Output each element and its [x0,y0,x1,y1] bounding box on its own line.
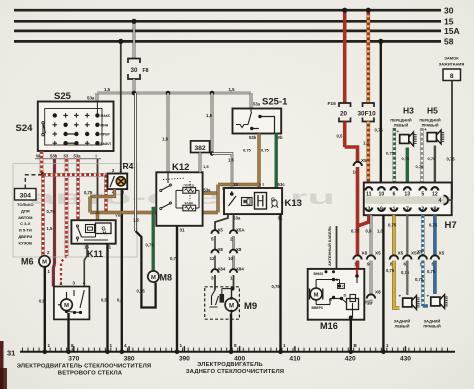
svg-text:ВНИЗ: ВНИЗ [314,272,323,276]
connector X5A pin 6 [403,255,411,259]
svg-text:0,75: 0,75 [170,256,179,261]
svg-text:Н3: Н3 [403,106,414,116]
motor M6 [39,256,50,267]
svg-text:S25-1: S25-1 [262,97,288,108]
svg-text:ЗАДНЕГО СТЕКЛООЧИСТИТЕЛЯ: ЗАДНЕГО СТЕКЛООЧИСТИТЕЛЯ [186,369,284,375]
svg-text:+: + [424,127,427,132]
svg-text:0,75: 0,75 [243,148,252,153]
ground rail 31 [20,351,455,353]
svg-text:X8: X8 [375,290,381,295]
svg-text:53b: 53b [50,154,58,159]
wire K13-31 to ground [279,214,281,352]
yellow wire H7-1 to X5-8 [392,215,396,256]
box 382 [191,141,210,153]
svg-text:1,5: 1,5 [229,87,236,92]
svg-text:ПЕРЕД: ПЕРЕД [184,183,195,187]
M16 motor [310,289,323,300]
K11 switch contact [76,225,78,227]
fuse F10 [363,103,375,107]
svg-text:X8: X8 [218,247,224,252]
connector X8 pin 12 [211,250,218,254]
scan edge artifact bottom-left [0,341,4,389]
connector X5A pin 2 [230,230,237,234]
relay K12 box [156,172,202,226]
svg-text:370: 370 [68,355,79,362]
M9 park switch [212,290,216,305]
connector X84 pin 3 [211,269,218,273]
M7 park switch [73,290,75,296]
node brown T [257,183,261,187]
svg-text:D: D [344,293,347,298]
yellow wire X5-8 to rear-left speaker [394,261,400,309]
svg-text:М9: М9 [244,301,257,312]
svg-text:ВЕТРОВОГО СТЕКЛА: ВЕТРОВОГО СТЕКЛА [58,370,123,376]
svg-text:0,5: 0,5 [337,134,343,139]
connector X5 pin 1 [419,255,427,259]
bus line 15A [14,30,441,33]
wire 53a to K13 via 382 [211,93,214,154]
svg-text:1,0: 1,0 [363,141,369,146]
svg-text:53: 53 [64,154,69,159]
svg-text:K11: K11 [87,249,103,259]
svg-text:1: 1 [110,343,113,348]
svg-text:53a: 53a [253,102,261,107]
svg-text:ПЕРЕДНИЙ: ПЕРЕДНИЙ [390,119,412,123]
uncolored wire from F8 down [134,93,137,231]
red wire X5-18 down [356,167,360,256]
svg-text:X84: X84 [236,267,244,272]
gray wire X8-13 to M16 [364,300,371,303]
svg-text:390: 390 [179,355,190,362]
svg-text:30: 30 [444,6,454,16]
loop wire to M8 lower [136,231,156,308]
wire 53a to K12 [167,93,170,172]
svg-text:1: 1 [48,343,51,348]
red wire 30 to F15 [343,10,347,103]
wire 58 to R4 [120,41,122,173]
svg-text:X5: X5 [218,228,224,233]
svg-text:АВТОМ: АВТОМ [18,215,33,220]
svg-text:15: 15 [233,182,238,187]
node [231,287,235,291]
svg-text:0,75: 0,75 [388,223,397,228]
rear wiper motor M9 dashed box [205,287,240,319]
svg-text:30F10: 30F10 [358,111,377,118]
black wire H7-9b to ground [382,215,384,352]
M16 internal wiring [315,280,317,289]
connector X5 pin 8 [390,255,398,259]
svg-text:МИН: МИН [101,123,109,127]
svg-text:3: 3 [211,276,214,281]
red wire F15 to X5-18 [343,122,347,148]
motor M8 [148,271,159,282]
wire 53a line to S25-1 [250,93,253,109]
svg-text:0,75: 0,75 [415,277,424,282]
svg-text:0,75: 0,75 [146,243,155,248]
svg-text:ПРАВЫЙ: ПРАВЫЙ [423,324,440,329]
svg-text:1: 1 [283,343,286,348]
svg-text:+: + [427,294,430,299]
svg-text:1: 1 [230,276,233,281]
svg-text:+: + [397,129,400,134]
svg-text:Н7: Н7 [445,220,457,231]
fuse F8 brackets [128,59,140,64]
red wire X8-11 to M16 [356,261,360,269]
svg-text:КУЗОВ: КУЗОВ [19,240,33,245]
svg-text:С 3-Х: С 3-Х [20,221,31,226]
gray wire X5A-6 to rear-left speaker [406,261,408,296]
striped wire horizontal [43,173,106,177]
wire K12-31 to ground [176,226,178,352]
svg-text:М: М [42,260,47,266]
svg-text:М8: М8 [160,273,173,283]
brown wire S25-1 to K13 [257,134,260,189]
K12 contact lower [160,207,162,209]
green wire K12 to M8 [153,209,156,271]
wire R4 to ground [121,189,123,352]
svg-text:8: 8 [234,343,237,348]
blue wire H7-8 to X5-6 [433,215,437,256]
M16 solenoid [347,299,359,310]
blue striped wire H7-2 to X5-1 [421,215,425,256]
svg-text:31: 31 [7,349,15,358]
svg-text:382: 382 [194,145,206,152]
svg-text:ПЕРЕДНИЙ: ПЕРЕДНИЙ [419,119,441,123]
svg-text:1: 1 [180,343,183,348]
K12 linkage dots [163,178,184,179]
K11 coil box G [96,223,112,234]
svg-text:В: В [329,297,332,302]
M7 motor [61,299,73,311]
svg-text:1: 1 [386,343,389,348]
gray wire H7-7 to X5A-6 [406,215,408,256]
ground nodes [43,350,48,355]
M16 ground node [349,316,353,320]
svg-text:9: 9 [367,262,370,267]
svg-text:31: 31 [180,228,186,233]
wire 53a from S25 [96,93,99,101]
wiper motor M7 box [54,287,90,320]
brown drop to K11 [96,213,99,221]
svg-text:ЛЕВЫЙ: ЛЕВЫЙ [395,324,410,329]
svg-text:ВЫКЛ: ВЫКЛ [101,142,112,146]
svg-text:0,5: 0,5 [366,229,372,234]
53a horizontal line [97,92,251,95]
resistor-lamp R4 box [108,174,128,190]
svg-text:6: 6 [392,191,395,197]
svg-text:8: 8 [450,73,454,80]
svg-text:X5: X5 [417,249,423,254]
switch S24 contact [42,124,44,135]
svg-text:X8: X8 [362,251,368,256]
wires into M9 [214,275,216,290]
svg-text:X5: X5 [375,251,381,256]
svg-text:X5A: X5A [236,228,245,233]
svg-text:304: 304 [20,193,32,200]
wire dark H5 to H7-12 [434,146,436,183]
svg-text:410: 410 [289,355,300,362]
K13 contact [230,192,234,196]
svg-text:ЛЕВЫЙ: ЛЕВЫЙ [394,123,409,127]
svg-text:53e: 53e [204,188,212,193]
svg-text:20: 20 [340,111,348,118]
svg-text:S24: S24 [16,123,34,134]
svg-text:0,75: 0,75 [416,164,425,169]
svg-text:30: 30 [131,67,138,74]
col5 feed line [96,102,98,116]
K13 small contact box [242,198,253,206]
svg-text:М6: М6 [21,257,34,267]
svg-text:S25: S25 [54,91,72,102]
option boundary box [13,164,137,258]
svg-text:420: 420 [345,355,356,362]
wire M16 to ground [350,318,352,352]
node on bus 15 [131,19,136,24]
R4 switch stroke [110,176,115,187]
connector X5 pin 5 [211,230,218,234]
svg-text:0,75: 0,75 [261,148,270,153]
wire 53a striped to K11 [76,159,80,220]
S25-1 contacts [250,127,253,130]
bus line 15 [14,20,441,23]
svg-text:K13: K13 [285,198,302,209]
relay K13 box [224,188,282,214]
H7 pin 4 side connector [444,196,449,205]
connector X8 pin 10 [230,250,237,254]
brown vertical [216,185,219,213]
link to K13-15 [212,154,232,189]
wire M6 to ground [44,267,46,352]
svg-text:1,5: 1,5 [104,87,111,92]
label box 304 [15,189,37,201]
svg-text:0,5: 0,5 [117,298,123,303]
svg-text:М: М [229,303,234,309]
svg-text:1,5: 1,5 [206,113,213,118]
fuse F15 [339,103,351,107]
svg-text:X5: X5 [361,158,367,163]
svg-text:12: 12 [432,191,438,197]
svg-text:0,75: 0,75 [137,289,146,294]
svg-text:X5: X5 [439,251,445,256]
svg-text:ТОЛЬКО: ТОЛЬКО [17,202,34,207]
row links [66,133,77,135]
switch S25-1 box [233,109,282,134]
M9 resistor [220,294,225,303]
svg-text:X8: X8 [236,247,242,252]
svg-text:X84: X84 [218,267,226,272]
ground rail ticks [22,348,24,352]
K12 internal wires [167,172,169,183]
svg-text:ЭЛЕКТРОДВИГАТЕЛЬ СТЕКЛООЧИСТИТ: ЭЛЕКТРОДВИГАТЕЛЬ СТЕКЛООЧИСТИТЕЛЯ [17,363,152,369]
svg-text:6: 6 [404,262,407,267]
brown horizontal to K11 [90,211,218,214]
svg-text:1,5: 1,5 [162,137,169,142]
wire W striped [40,151,44,175]
blue striped wire X5-1 to rear-right speaker [421,261,425,307]
connector X5 pin 9 [367,255,375,259]
svg-text:М: М [64,303,69,309]
S25-1 wavy contact [236,125,248,128]
relay K11 box [71,220,115,244]
svg-text:4: 4 [124,343,127,348]
black wire 58 to H7-10 [380,41,382,182]
node 53a-F8 [132,91,137,96]
svg-text:Н5: Н5 [427,106,438,116]
svg-text:5: 5 [211,237,214,242]
S25 contact grid [53,113,57,117]
svg-text:МАКС: МАКС [101,114,111,118]
svg-text:0,75: 0,75 [429,223,438,228]
bus line 58 [14,40,441,43]
svg-text:ЗАДН: ЗАДН [185,201,193,205]
gray wire H7-9 to X5-9 [370,215,373,256]
svg-text:АНТЕННЫЙ КАБЕЛЬ: АНТЕННЫЙ КАБЕЛЬ [327,226,332,266]
svg-text:ЗАЖИГАНИЯ: ЗАЖИГАНИЯ [439,62,465,67]
H7 top row sockets [365,187,372,190]
wire ignition to H7-4 [451,81,453,200]
svg-text:ДВЕРИ: ДВЕРИ [18,234,32,239]
svg-text:F15: F15 [328,101,337,107]
wire striped gray to H5 [420,128,424,183]
svg-text:X5: X5 [398,251,404,256]
svg-text:53b: 53b [249,135,257,140]
svg-text:0,75: 0,75 [427,269,436,274]
blue wire X5-6 to rear-right speaker [433,261,437,295]
svg-text:380: 380 [124,355,135,362]
wire 53 striped [65,159,69,256]
gray wire X5-9 to X8-13 [370,261,373,296]
wire M7 to ground [67,313,69,352]
brown wire from K12 53e [203,191,218,194]
svg-text:13: 13 [404,191,410,197]
svg-text:1,5: 1,5 [47,226,53,231]
svg-text:53c: 53c [278,182,286,187]
red wire H7-3 to X8-11 [358,215,369,226]
node [210,151,214,155]
M16 red input node [356,269,358,276]
striped wire to M6 [41,175,45,256]
wire K11-15 to wiper pin4 [84,244,87,287]
wire K13-53a to X5 [215,214,228,231]
striped wire F10 to H7-11 [366,122,370,183]
svg-text:5: 5 [421,191,424,197]
antenna motor M16 box [308,269,365,320]
green wire S25-1 to K13 [275,134,278,189]
K11 internal link [82,236,96,238]
svg-text:1,5: 1,5 [203,164,209,169]
svg-text:R4: R4 [123,161,134,171]
K12 contact upper [160,189,162,191]
svg-text:4: 4 [439,198,442,204]
node on bus 58 [118,39,123,44]
motor M9 [225,298,238,311]
ignition lock box 8 [443,69,461,81]
svg-text:ЭЛЕКТРОДВИГАТЕЛЬ: ЭЛЕКТРОДВИГАТЕЛЬ [197,362,263,368]
svg-text:1,5: 1,5 [228,158,234,163]
svg-text:F8: F8 [143,68,149,74]
node on bus 30 [366,8,371,13]
bus line 30 [14,9,441,12]
svg-text:1,5: 1,5 [133,218,139,223]
wire green H3 to H7-13 [406,148,409,183]
svg-text:58: 58 [444,37,454,47]
wires to X84 [214,256,216,271]
K11 small contact box [86,225,95,233]
striped wire down past R4 [104,175,108,212]
wire 15 to fuse F8 [133,21,136,58]
svg-text:430: 430 [400,355,411,362]
svg-text:0,75: 0,75 [351,229,360,234]
node 53a-K12 [166,91,171,96]
svg-text:53a: 53a [87,96,95,101]
svg-text:10: 10 [379,191,385,197]
connector X84 pin 1 [230,269,237,273]
wire fuse F8 to 53a line [133,79,136,93]
svg-text:0,75: 0,75 [84,190,93,195]
svg-text:K12: K12 [172,162,189,173]
svg-text:0,75: 0,75 [428,156,437,161]
node on bus 30 [342,8,347,13]
connector H7 box [364,183,452,216]
svg-text:М: М [151,275,156,281]
antenna cable [336,226,338,269]
svg-text:ЗАМОК: ЗАМОК [444,56,459,61]
wire I to K11 [97,159,99,220]
svg-text:ПРЕР: ПРЕР [101,133,111,137]
svg-text:0,75: 0,75 [447,157,456,162]
svg-text:0,75: 0,75 [375,128,384,133]
svg-text:И 5-ТИ: И 5-ТИ [19,228,32,233]
svg-text:0,75: 0,75 [272,284,281,289]
svg-text:+: + [399,294,402,299]
switch S25 box [38,102,114,152]
svg-text:М: М [314,292,319,298]
svg-text:15: 15 [444,17,454,27]
svg-text:0,75: 0,75 [47,209,56,214]
R4 pin4 link to brown YR wire [90,189,115,196]
svg-text:53a: 53a [74,154,82,159]
svg-text:YR: YR [115,213,121,218]
wire M9 to ground [230,314,232,352]
svg-text:0,75: 0,75 [386,151,395,156]
wire K11-31 to ground [106,244,108,352]
svg-text:I: I [96,154,97,159]
svg-text:11: 11 [366,191,372,197]
svg-text:W: W [36,154,40,159]
wires to X8 [214,236,216,251]
svg-text:0,75: 0,75 [386,268,395,273]
connector X8 pin 11 [353,255,361,259]
node on bus 58 [378,39,383,44]
svg-text:0,5: 0,5 [101,298,107,303]
svg-text:8: 8 [71,343,74,348]
svg-text:G: G [102,227,106,233]
connector X5 pin 18 [354,162,362,166]
svg-text:I: I [263,182,264,187]
connector X8 pin 13 [367,294,375,298]
striped wire 30 to F10 [366,10,370,103]
R4 lamp [116,177,125,186]
svg-text:0,75: 0,75 [402,156,411,161]
svg-text:1,0: 1,0 [377,229,383,234]
wire striped green to H3 [393,128,397,183]
svg-text:ВВЕРХ: ВВЕРХ [312,306,324,310]
node striped-304 [41,172,46,177]
connector X5 pin 6 [431,255,439,259]
stub 382 to K12 [199,153,202,173]
ground rail number ticks [73,346,75,352]
K13 relay pin box [255,193,267,210]
